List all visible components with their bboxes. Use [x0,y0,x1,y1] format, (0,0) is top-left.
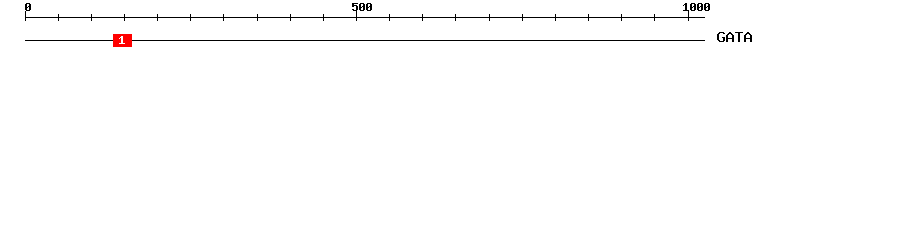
minor tick 450 [323,14,324,21]
minor tick 800 [555,14,556,21]
minor tick 250 [190,14,191,21]
major tick 0 [25,11,26,21]
feature box 1 (red) [113,34,132,47]
feature label 1 (white) [119,36,125,44]
tick label 0 [25,3,31,11]
track label GATA [717,32,752,42]
minor tick 350 [257,14,258,21]
major tick 500 [356,11,357,21]
minor tick 550 [389,14,390,21]
minor tick 400 [290,14,291,21]
minor tick 900 [621,14,622,21]
minor tick 300 [223,14,224,21]
minor tick 850 [588,14,589,21]
minor tick 750 [522,14,523,21]
tick label 500 [352,3,372,11]
minor tick 950 [654,14,655,21]
tick label 1000 [683,3,710,11]
background [0,0,900,58]
major tick 1000 [688,11,689,21]
minor tick 600 [422,14,423,21]
ruler axis line [25,17,705,18]
minor tick 650 [455,14,456,21]
minor tick 50 [58,14,59,21]
minor tick 100 [91,14,92,21]
minor tick 150 [124,14,125,21]
feature track line [25,40,705,41]
minor tick 700 [489,14,490,21]
minor tick 200 [157,14,158,21]
